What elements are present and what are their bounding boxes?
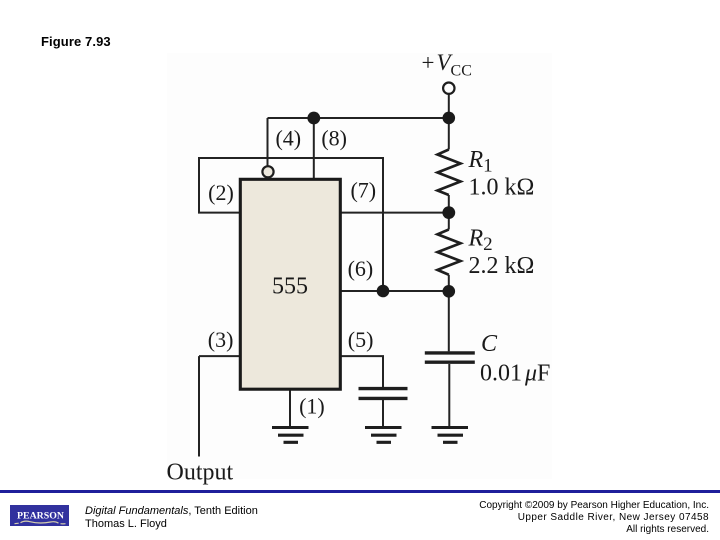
svg-text:(6): (6) xyxy=(348,256,374,281)
svg-text:555: 555 xyxy=(272,273,308,299)
svg-text:0.01μF: 0.01μF xyxy=(480,361,550,387)
svg-text:2.2 kΩ: 2.2 kΩ xyxy=(469,253,535,279)
svg-text:Output: Output xyxy=(167,459,234,485)
svg-text:(1): (1) xyxy=(299,394,325,419)
svg-text:(7): (7) xyxy=(350,178,376,203)
svg-text:(4): (4) xyxy=(275,126,301,151)
svg-text:(5): (5) xyxy=(348,327,374,352)
svg-text:PEARSON: PEARSON xyxy=(17,510,65,520)
svg-text:1.0 kΩ: 1.0 kΩ xyxy=(469,175,535,201)
svg-text:(8): (8) xyxy=(321,126,347,151)
svg-text:(2): (2) xyxy=(208,180,234,205)
svg-text:(3): (3) xyxy=(208,327,234,352)
svg-text:+VCC: +VCC xyxy=(422,50,472,79)
svg-text:R1: R1 xyxy=(468,147,493,177)
svg-text:C: C xyxy=(481,331,498,357)
svg-text:R2: R2 xyxy=(468,226,493,256)
